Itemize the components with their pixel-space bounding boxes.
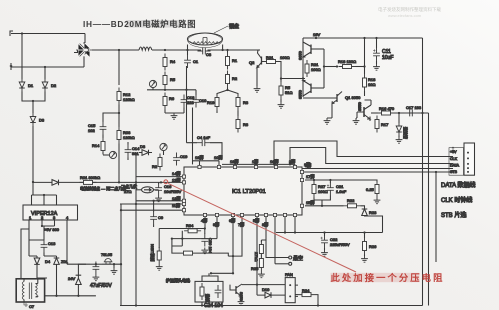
svg-text:R1: R1 (232, 58, 238, 63)
capacitor C23 (90, 262, 102, 275)
capacitor C13 (41, 240, 57, 257)
svg-text:6脚: 6脚 (229, 217, 235, 223)
wire zd3 top (78, 264, 86, 275)
svg-text:电子发烧友网制作整理资料下载: 电子发烧友网制作整理资料下载 (378, 6, 441, 13)
svg-text:Q1 8050: Q1 8050 (345, 95, 361, 100)
svg-text:R24: R24 (302, 288, 310, 293)
wire pin12 current sense (33, 177, 182, 184)
ground ZD2 (396, 136, 403, 144)
svg-text:R23: R23 (369, 210, 377, 215)
svg-text:R3: R3 (243, 100, 249, 105)
resistor R12 (117, 88, 135, 105)
resistor R34 (184, 223, 201, 233)
label pin1 right (304, 161, 310, 167)
capacitor C19b (173, 153, 188, 166)
IC U1 IC1 LT20P01 (184, 167, 302, 215)
svg-text:C7: C7 (29, 304, 35, 309)
svg-text:此处加接一个分压电阻: 此处加接一个分压电阻 (331, 272, 445, 283)
svg-text:11脚: 11脚 (172, 202, 180, 208)
resistor R19 (207, 94, 219, 111)
wire pin2 to connector (302, 171, 453, 173)
ground R26 (361, 255, 368, 263)
wire rail to coil (152, 49, 201, 51)
svg-text:C19: C19 (180, 154, 188, 159)
svg-text:R2: R2 (232, 76, 238, 81)
transistor Q1 (303, 91, 365, 104)
resistor R4 (163, 54, 176, 71)
transistor Q7 test circle (160, 143, 167, 155)
svg-text:102: 102 (88, 128, 95, 133)
svg-text:120kΩ: 120kΩ (123, 97, 135, 102)
svg-text:STB 片选: STB 片选 (441, 211, 466, 219)
svg-text:10Ω: 10Ω (368, 82, 375, 87)
svg-text:D2: D2 (51, 83, 57, 88)
svg-text:12脚: 12脚 (172, 177, 180, 183)
svg-text:R18 120Ω: R18 120Ω (338, 59, 356, 64)
svg-text:0.25: 0.25 (366, 187, 375, 192)
connector CN1 (464, 143, 475, 175)
wire fan bottom (290, 285, 298, 303)
pin labels top (195, 154, 295, 164)
wire D2 drop (44, 67, 46, 79)
svg-text:R34: R34 (186, 223, 194, 228)
svg-text:D1: D1 (28, 83, 34, 88)
wire driver output (302, 38, 304, 97)
svg-text:FAN: FAN (285, 272, 293, 277)
svg-text:D4: D4 (45, 259, 51, 264)
wire R3 to R8 (217, 111, 238, 117)
svg-text:C9: C9 (158, 215, 164, 220)
diode D2 (42, 79, 57, 92)
wire sec rail (45, 295, 96, 297)
wire viper top pins (32, 194, 57, 205)
diode D5 on sense wire (52, 180, 59, 186)
svg-text:17脚: 17脚 (306, 173, 314, 179)
transistor Q5 big (357, 100, 371, 119)
wire pin9 down (216, 217, 218, 239)
wire pin10b (120, 209, 182, 211)
label DATA legend (441, 181, 475, 219)
svg-text:47uF/50V: 47uF/50V (90, 283, 112, 289)
svg-text:电流检测点 — 两二点几伏: 电流检测点 — 两二点几伏 (80, 185, 126, 191)
ground R25 (258, 272, 265, 278)
svg-text:1脚: 1脚 (252, 158, 258, 164)
ground Q2 (254, 86, 261, 92)
svg-text:120kΩ: 120kΩ (123, 135, 135, 140)
wire routing outer to connector (274, 141, 453, 164)
wire top pin bus right (222, 163, 295, 165)
ground R25b (374, 198, 381, 204)
svg-text:护温探头电路: 护温探头电路 (166, 277, 190, 283)
svg-text:STB: STB (450, 170, 458, 174)
pin squares right (300, 170, 303, 207)
terminal N (10, 63, 12, 70)
svg-text:24V: 24V (68, 276, 75, 281)
resistor R31 sense (150, 229, 161, 265)
wire bottom rail (120, 304, 423, 306)
wire pin14 (136, 170, 182, 177)
capacitor C18 (181, 95, 196, 108)
capacitor C15 (88, 122, 106, 135)
svg-text:C13: C13 (48, 241, 56, 246)
resistor R17 (375, 116, 389, 133)
wire Q8 node (147, 89, 196, 91)
wire R12 to R03 (118, 105, 120, 128)
wire left rail down (32, 126, 34, 195)
svg-text:C4 1uF: C4 1uF (197, 135, 211, 140)
wire fan drive (210, 256, 234, 274)
svg-text:CLK 时钟线: CLK 时钟线 (441, 196, 472, 204)
svg-text:R19: R19 (207, 100, 215, 105)
wire main rail (92, 49, 139, 51)
transistor Q2 (249, 50, 262, 68)
ground Q9 (238, 296, 245, 305)
resistor R6 (163, 93, 175, 110)
wire R21 to driver (280, 62, 306, 79)
wire pinB down (284, 217, 286, 234)
ground Q1 (324, 118, 331, 124)
ground C23 (93, 275, 100, 281)
resistor R24 (295, 288, 318, 306)
capacitor C10 (193, 90, 208, 108)
wire R27 C21 join (314, 196, 330, 207)
svg-text:R4: R4 (170, 59, 176, 64)
svg-text:8050: 8050 (298, 50, 303, 60)
pin squares left (182, 175, 185, 212)
pin labels bottom (201, 217, 268, 227)
transformer T1 (16, 279, 44, 302)
wire 18V rail (303, 37, 423, 39)
svg-text:IC1 LT20P01: IC1 LT20P01 (232, 189, 266, 195)
ground R6 (165, 108, 184, 120)
svg-text:R26: R26 (369, 244, 377, 249)
wire vertical gate down (428, 113, 430, 306)
svg-text:13脚: 13脚 (172, 195, 180, 201)
resistor R16 (378, 106, 395, 115)
wire viper sub (21, 225, 55, 279)
label 护温探头电路 (166, 277, 190, 283)
wire Q5 emitter (369, 119, 371, 121)
resistor R1 (226, 50, 238, 70)
diode D1 (19, 79, 34, 92)
wire R03 down (118, 144, 120, 183)
wire viper bottom pins (29, 220, 90, 264)
wire pin4 down (204, 217, 206, 229)
svg-text:C17 183: C17 183 (406, 105, 422, 110)
svg-text:R16 470: R16 470 (379, 106, 395, 111)
svg-text:www.elecfans.com: www.elecfans.com (388, 13, 422, 18)
wire pin5 down (256, 217, 258, 286)
wire pinA down (274, 217, 276, 264)
wire vertical 18V down (422, 38, 424, 306)
transistor Q9 fan (230, 284, 244, 302)
resistor R21 (262, 55, 290, 64)
svg-text:100Ω: 100Ω (311, 67, 321, 72)
resistor R2 (226, 71, 238, 88)
svg-text:10uF: 10uF (382, 55, 393, 61)
capacitor C24 (215, 285, 222, 298)
resistor R27 (312, 180, 328, 198)
terminal L (10, 31, 13, 36)
transistor Q6 test circle (103, 151, 117, 158)
wire bus 256 (136, 250, 242, 257)
resistor R25b (366, 181, 379, 198)
resistor R8 (236, 116, 249, 133)
bridge rectifier (74, 42, 92, 58)
svg-text:10脚: 10脚 (214, 154, 222, 160)
svg-text:DATA 数据线: DATA 数据线 (441, 181, 475, 189)
svg-text:R8: R8 (243, 122, 249, 127)
svg-text:18V: 18V (313, 32, 320, 37)
ground R31 (156, 264, 163, 270)
diode D8 (139, 144, 152, 155)
ground C22 (321, 248, 328, 256)
label 47uF (90, 283, 112, 289)
resistor R01 (80, 175, 101, 184)
capacitor C16 (155, 182, 181, 195)
svg-text:5脚: 5脚 (253, 217, 259, 223)
wire transformer sec (38, 278, 47, 297)
wire gate line (371, 112, 378, 114)
wire Q2 emitter (256, 68, 258, 87)
capacitor C22 (321, 233, 350, 249)
resistor R25 (254, 240, 266, 261)
svg-text:Z01: Z01 (61, 259, 69, 264)
capacitor C8 (198, 48, 212, 57)
svg-text:225uF/50V: 225uF/50V (330, 242, 350, 247)
diode D9 (362, 209, 377, 216)
svg-text:19脚: 19脚 (195, 154, 203, 160)
resistor R18 (336, 59, 366, 69)
thermistor box TH (195, 281, 223, 302)
capacitor C9 (150, 201, 164, 227)
pin squares top (198, 165, 297, 168)
svg-text:100Ω: 100Ω (280, 55, 290, 60)
svg-text:C1: C1 (193, 59, 199, 64)
ground 78L05 (111, 263, 118, 274)
wire 5v up (120, 264, 122, 305)
wire R18 node down (364, 38, 366, 74)
svg-text:27Ω: 27Ω (124, 189, 131, 194)
wire bottom AC (11, 57, 84, 68)
svg-text:10uF/25V: 10uF/25V (164, 189, 182, 194)
inductor L1 choke (139, 47, 152, 50)
connector label box (449, 147, 464, 175)
svg-text:51Ω: 51Ω (285, 90, 292, 95)
svg-text:整流管: 整流管 (403, 127, 409, 139)
wire R2 split (217, 88, 238, 97)
svg-text:1脚: 1脚 (304, 161, 310, 167)
wire 5V vertical (120, 204, 122, 265)
wire pin3 to connector (302, 162, 453, 169)
label 锅盘 (214, 23, 239, 33)
wire top pin bus left (193, 161, 220, 166)
resistor R3 (236, 94, 249, 111)
node red marker (164, 180, 168, 184)
label T1 bottom (24, 302, 35, 309)
wire join D1 D2 (22, 92, 45, 103)
wire pin15 (305, 199, 344, 206)
svg-text:DATA: DATA (450, 164, 460, 168)
svg-text:18脚: 18脚 (230, 158, 238, 164)
svg-text:IH——BD20M电磁炉电路图: IH——BD20M电磁炉电路图 (83, 19, 196, 29)
label 18V (313, 32, 320, 37)
svg-text:1.0uF: 1.0uF (336, 189, 347, 194)
red annotation text (331, 272, 445, 283)
transformer windings (22, 280, 38, 302)
diode D10 (257, 285, 285, 298)
wire v192 (192, 108, 194, 165)
resistor R5 (279, 77, 292, 99)
wire top AC (11, 32, 85, 43)
svg-text:100Ω: 100Ω (318, 189, 328, 194)
wire Q1 emitter to ground (327, 104, 332, 119)
wire rail right of coil (208, 49, 261, 51)
wire driver bases (302, 49, 337, 88)
wire th box link (202, 273, 218, 305)
ground Q5 (353, 112, 360, 124)
open terminals 悬空 (266, 240, 303, 265)
label C24 (204, 303, 223, 309)
wire v136 (135, 153, 137, 306)
capacitor C20 (201, 229, 213, 254)
wire pin17 (305, 173, 377, 183)
zener ZD3 (68, 275, 81, 296)
resistor R03 (117, 127, 135, 144)
title IH——BD20M电磁炉电路图 (126, 20, 178, 28)
wire pin7 down (241, 217, 243, 250)
zener ZD2 (396, 113, 409, 139)
capacitor C21 (327, 180, 347, 196)
svg-text:R6: R6 (169, 96, 175, 101)
svg-text:27kΩ: 27kΩ (254, 252, 259, 261)
label 电流检测点 (80, 185, 126, 191)
red annotation line (168, 183, 356, 272)
svg-text:R2: R2 (152, 164, 158, 169)
wire to D3 (32, 101, 34, 113)
svg-text:R14: R14 (92, 143, 100, 148)
fan box FAN (285, 272, 295, 303)
wire bus 2285 (159, 227, 206, 229)
regulator 78L05 (101, 252, 121, 264)
svg-text:R01 300kΩ: R01 300kΩ (80, 175, 100, 180)
svg-text:R22: R22 (347, 198, 355, 203)
wire pin13 (136, 195, 182, 202)
svg-text:C10: C10 (199, 98, 207, 103)
resistor R22 (344, 198, 361, 208)
wire vertical stb down (435, 172, 437, 262)
svg-text:78L05: 78L05 (101, 252, 113, 257)
transistor Q8 test circle (149, 80, 156, 89)
svg-text:14脚: 14脚 (172, 170, 180, 176)
diode D3 (30, 113, 45, 126)
wire R22 to diode (361, 206, 365, 209)
svg-text:D10: D10 (262, 287, 270, 292)
label +5V 300 (44, 227, 60, 232)
label sensor voltage (121, 183, 137, 194)
resistor R26 (363, 233, 378, 255)
svg-text:D8: D8 (140, 144, 146, 149)
transistor Q4 8550 (298, 81, 325, 100)
wire C15 branch (103, 113, 119, 122)
wire loop box (365, 216, 383, 233)
svg-text:R17: R17 (381, 122, 389, 127)
IC U2 VIPER12A (23, 205, 78, 220)
resistor R33 (172, 246, 228, 256)
diode Z01 (44, 256, 69, 296)
pan coil (187, 33, 222, 50)
svg-text:D3: D3 (39, 118, 45, 123)
resistor R20 (152, 154, 162, 171)
svg-text:热敏: 热敏 (205, 294, 211, 302)
svg-text:8脚: 8脚 (262, 221, 268, 227)
capacitor C17 (405, 105, 422, 116)
svg-text:8550: 8550 (357, 101, 362, 111)
resistor R21b (305, 60, 321, 77)
ground C11 (373, 61, 380, 70)
svg-text:R21: R21 (266, 55, 274, 60)
capacitor C14 (125, 142, 141, 160)
diode D4 (29, 256, 51, 279)
svg-text:4脚: 4脚 (201, 217, 207, 223)
resistor R5a (163, 72, 176, 89)
resistor R25c (251, 255, 263, 272)
wire fan top (242, 284, 285, 286)
svg-text:9脚: 9脚 (213, 221, 219, 227)
resistor R18b (363, 74, 377, 91)
wire pin8 down (265, 217, 267, 240)
svg-text:8550: 8550 (298, 89, 303, 99)
wire R12 branch (118, 50, 120, 85)
svg-text:7脚: 7脚 (238, 221, 244, 227)
svg-text:C8: C8 (206, 52, 212, 57)
svg-text:C20 104: C20 104 (208, 238, 213, 254)
wire routing inner to connector (290, 148, 453, 165)
svg-text:R5: R5 (170, 77, 176, 82)
ground C20 (201, 248, 208, 254)
wire pin6 down (232, 217, 234, 257)
wire pin11 (120, 202, 182, 208)
svg-text:15脚: 15脚 (306, 199, 314, 205)
wire pinC down (294, 217, 296, 234)
wire gate right (395, 112, 429, 114)
svg-text:悬空: 悬空 (293, 255, 303, 262)
capacitor C1 (184, 50, 199, 68)
capacitor C4 (187, 66, 223, 160)
ground C16 (155, 196, 162, 202)
transistor Q3 8050 (298, 42, 325, 60)
thermistor sensor (136, 187, 159, 193)
wire D1 drop (21, 34, 23, 80)
pin squares bottom (203, 213, 296, 216)
svg-text:+5V: +5V (450, 150, 457, 154)
svg-text:CLK: CLK (450, 157, 458, 161)
svg-text:+5V 300: +5V 300 (44, 227, 60, 232)
capacitor C11 (373, 38, 393, 61)
wire sub loop (171, 231, 217, 246)
resistor R14 (92, 135, 105, 155)
svg-text:Q2: Q2 (249, 60, 255, 65)
svg-text:R25: R25 (251, 266, 259, 271)
wire bus 232 (276, 231, 383, 233)
svg-text:锅盘: 锅盘 (229, 23, 239, 30)
svg-text:IGBT检测: IGBT检测 (150, 244, 156, 261)
ground R5 (278, 99, 285, 108)
